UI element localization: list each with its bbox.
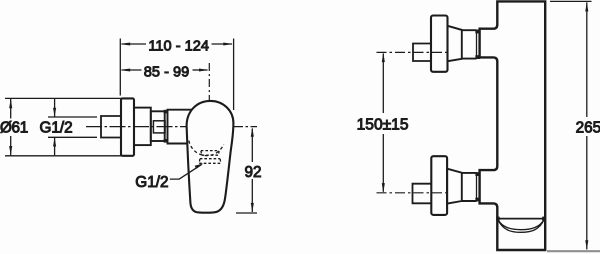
- dimension 85-99 line: [122, 69, 208, 71]
- top wall pipe (front view): [413, 44, 432, 62]
- extension line right (handle front): [233, 39, 235, 111]
- svg-text:265: 265: [576, 119, 600, 136]
- bottom joint blobs: [475, 172, 480, 201]
- outlet chord line: [498, 218, 545, 220]
- diameter 61 extension line bottom: [5, 155, 134, 157]
- faucet body (front view): [480, 1, 546, 250]
- outlet chord end blobs: [496, 217, 545, 221]
- diameter 61 arrows: [9, 99, 12, 156]
- body step B: [151, 111, 165, 141]
- 150 dimension line: [382, 54, 384, 192]
- escutcheon flange (side view): [121, 98, 134, 155]
- hidden circle arc (dashed): [189, 141, 224, 156]
- top escutcheon flange: [431, 16, 448, 72]
- svg-text:G1/2: G1/2: [135, 174, 168, 191]
- bottom joint double line: [477, 173, 480, 201]
- centerline vertical through handle (dash-dot): [208, 63, 210, 160]
- 92 extension line bottom: [236, 212, 257, 214]
- dimension 110-124 arrows: [121, 42, 233, 45]
- 150 arrows: [382, 53, 385, 193]
- bottom escutcheon flange: [431, 156, 447, 215]
- dimension 85-99 arrows: [121, 68, 209, 71]
- centerline horizontal (dash-dot): [86, 126, 257, 128]
- top union nut: [462, 30, 477, 58]
- joint double line: [165, 111, 168, 143]
- svg-text:85 - 99: 85 - 99: [144, 64, 189, 80]
- top eccentric cone: [448, 26, 462, 61]
- bottom centerline (dash-dot): [377, 192, 451, 194]
- bottom union nut: [462, 173, 477, 201]
- svg-text:150±15: 150±15: [357, 117, 409, 134]
- leader line G1/2 cartridge: [170, 165, 202, 180]
- top joint blobs: [475, 30, 480, 59]
- G1/2 extension line bottom: [48, 136, 97, 138]
- svg-text:Ø61: Ø61: [0, 120, 28, 137]
- extension line left (wall face): [119, 39, 121, 96]
- bottom eccentric cone: [447, 169, 462, 204]
- top joint double line: [477, 31, 480, 59]
- G1/2 extension line top: [48, 116, 97, 118]
- diameter 61 extension line top: [5, 97, 134, 99]
- svg-text:G1/2: G1/2: [40, 120, 73, 137]
- body step C (handle hub): [168, 110, 194, 144]
- 92 arrows: [251, 127, 254, 212]
- 265 extension line bottom (gray): [547, 250, 600, 252]
- top centerline (dash-dot): [377, 51, 451, 53]
- G1/2 dimension stubs: [54, 99, 56, 155]
- hidden nut band 1 (dashed): [201, 151, 219, 156]
- G1/2 arrows: [53, 108, 56, 147]
- 265 dimension line: [586, 2, 588, 249]
- 92 dimension line: [251, 129, 253, 213]
- 265 arrows: [585, 2, 588, 250]
- hidden nut band 2 (dashed): [199, 159, 221, 164]
- svg-text:92: 92: [245, 164, 262, 181]
- handle lever (white filled): [187, 101, 234, 213]
- 265 extension line top: [550, 0, 592, 2]
- body step A: [134, 108, 151, 146]
- dimension 110-124 line: [122, 43, 233, 45]
- svg-text:110 - 124: 110 - 124: [148, 39, 209, 55]
- inlet pipe G1/2 (side view): [101, 116, 121, 138]
- diameter 61 dimension line: [10, 99, 12, 155]
- bottom wall pipe (front view): [413, 184, 432, 204]
- leader arrowhead: [195, 163, 204, 169]
- nut detail: [153, 121, 165, 133]
- joint end blobs: [164, 110, 168, 143]
- outlet crescent: [498, 219, 544, 232]
